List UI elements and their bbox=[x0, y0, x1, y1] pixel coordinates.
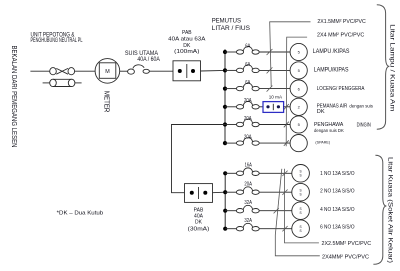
svg-text:dengan suis DK: dengan suis DK bbox=[314, 128, 344, 133]
wire service neutral in bbox=[43, 82, 50, 84]
node top row4 bbox=[223, 105, 227, 109]
tick row2 bbox=[267, 67, 273, 73]
brace bottom bbox=[373, 155, 386, 264]
wire cutout to meter bbox=[75, 70, 96, 72]
wire switch to PAB1 bbox=[149, 70, 173, 72]
svg-text:6A: 6A bbox=[245, 62, 251, 68]
svg-text:LAMPU/KIPAS: LAMPU/KIPAS bbox=[314, 66, 349, 73]
label suis-utama bbox=[125, 51, 160, 63]
callout 2x1.5mm bbox=[270, 22, 311, 86]
svg-text:6A: 6A bbox=[245, 43, 251, 49]
svg-text:PEMUTUS: PEMUTUS bbox=[212, 18, 241, 25]
neutral link N-PL bbox=[50, 79, 75, 86]
outlet circle row6 spare bbox=[290, 135, 307, 152]
outlet circle row1 bbox=[290, 43, 307, 60]
svg-text:6A: 6A bbox=[245, 80, 251, 86]
tick brow4 bbox=[282, 226, 287, 231]
svg-text:(SPARE): (SPARE) bbox=[315, 141, 330, 145]
label supply-left bbox=[10, 46, 17, 148]
svg-text:40A atau 63A: 40A atau 63A bbox=[168, 36, 205, 42]
node bottom row3 bbox=[223, 209, 227, 213]
outlet circle row5 bbox=[290, 116, 307, 133]
fuse 32A brow3 bbox=[225, 205, 292, 213]
svg-text:20A: 20A bbox=[244, 182, 252, 188]
svg-text:BEKALAN DARI PEMEGANG LESEN: BEKALAN DARI PEMEGANG LESEN bbox=[10, 46, 17, 148]
callout 2x4mm bottom bbox=[275, 169, 320, 256]
svg-text:LITAR / FIUS: LITAR / FIUS bbox=[212, 25, 250, 32]
fuse 32A brow4 bbox=[225, 223, 292, 231]
fuse 20A brow2 bbox=[225, 187, 292, 195]
svg-text:10 mA: 10 mA bbox=[269, 94, 283, 99]
svg-text:2X4 MM² PVC/PVC: 2X4 MM² PVC/PVC bbox=[317, 33, 364, 39]
svg-text:20A: 20A bbox=[244, 135, 252, 141]
label litar-kuasa bbox=[386, 157, 392, 263]
tick row4 bbox=[284, 104, 289, 110]
meter M1 bbox=[95, 59, 120, 84]
svg-text:2X4MM² PVC/PVC: 2X4MM² PVC/PVC bbox=[322, 254, 369, 260]
callout 2x4mm top bbox=[286, 37, 307, 146]
svg-text:40A / 60A: 40A / 60A bbox=[137, 57, 160, 63]
RCD 10mA blue bbox=[263, 102, 284, 113]
svg-text:4 NO 13A S/S/O: 4 NO 13A S/S/O bbox=[320, 207, 355, 213]
label PAB1 bbox=[168, 30, 205, 55]
switch S1 main switch bbox=[128, 65, 150, 74]
callout 2x2.5mm bbox=[285, 169, 319, 243]
tick brow2 bbox=[282, 190, 287, 195]
node top row2 bbox=[223, 68, 227, 72]
label penghawa row5 bbox=[314, 122, 371, 133]
tick row3 bbox=[267, 86, 273, 92]
outlet circle row4 bbox=[290, 98, 307, 115]
svg-text:DINGIN: DINGIN bbox=[357, 122, 371, 128]
svg-text:DK: DK bbox=[195, 220, 203, 226]
tick brow1 bbox=[282, 171, 287, 176]
fuse 6A row1 bbox=[225, 47, 290, 55]
fuse 20A row6 bbox=[225, 138, 290, 146]
svg-text:16A: 16A bbox=[245, 163, 253, 169]
svg-text:2 NO 13A S/S/O: 2 NO 13A S/S/O bbox=[320, 189, 355, 195]
svg-text:S: S bbox=[300, 193, 302, 197]
fuse 16A brow1 bbox=[225, 168, 292, 176]
svg-text:PAB: PAB bbox=[182, 30, 192, 36]
svg-text:6 NO 13A S/S/O: 6 NO 13A S/S/O bbox=[320, 225, 355, 231]
fuse 6A row2 bbox=[225, 65, 290, 73]
label pemanas row4 bbox=[317, 103, 374, 115]
wire service live in bbox=[30, 70, 49, 72]
fuse 20A row5 bbox=[225, 119, 290, 127]
node bottom row1 bbox=[223, 171, 227, 175]
wire RCD to outlet row4 bbox=[284, 106, 291, 108]
brace top bbox=[377, 5, 390, 129]
label litar-lampu bbox=[389, 24, 395, 111]
svg-text:2X1.5MM² PVC/PVC: 2X1.5MM² PVC/PVC bbox=[317, 19, 365, 25]
wire PAB1 to busbar bbox=[201, 69, 226, 72]
svg-text:dengan suis: dengan suis bbox=[349, 103, 373, 108]
wire meter to switch bbox=[120, 70, 128, 72]
wire feed to PAB2 bbox=[172, 125, 226, 193]
svg-text:S: S bbox=[300, 211, 302, 215]
busbar bottom bbox=[224, 173, 226, 228]
label unit-pepotong bbox=[31, 32, 83, 44]
outlet circle brow1 bbox=[292, 165, 310, 183]
node top row1 bbox=[223, 50, 227, 54]
svg-text:Litar Kuasa (Soket Alir Keluar: Litar Kuasa (Soket Alir Keluar) bbox=[386, 157, 392, 263]
tick row1 bbox=[267, 49, 273, 55]
svg-text:S: S bbox=[300, 229, 302, 233]
svg-text:(30mA): (30mA) bbox=[188, 226, 210, 232]
svg-text:LOCENG/ PENGGERA: LOCENG/ PENGGERA bbox=[317, 86, 365, 92]
outlet circle row3 bbox=[290, 80, 307, 97]
wire neutral stub bbox=[75, 82, 82, 84]
node top row5 bbox=[223, 122, 227, 126]
label PAB2 bbox=[188, 208, 210, 233]
outlet circle brow2 bbox=[292, 183, 310, 201]
fuse cutout F-PL bbox=[50, 68, 75, 75]
svg-text:Litar Lampu / Kuasa Am: Litar Lampu / Kuasa Am bbox=[389, 24, 395, 111]
outlet circle brow3 bbox=[292, 202, 310, 220]
svg-text:1 NO 13A S/S/O: 1 NO 13A S/S/O bbox=[320, 171, 355, 177]
svg-text:20A: 20A bbox=[244, 98, 252, 104]
wire PAB2 to busbar2 bbox=[213, 191, 226, 194]
label meter bbox=[102, 91, 109, 113]
svg-text:LAMPU /KIPAS: LAMPU /KIPAS bbox=[313, 48, 350, 55]
svg-text:METER: METER bbox=[102, 91, 109, 113]
svg-text:32A: 32A bbox=[244, 218, 252, 224]
svg-text:*DK – Dua Kutub: *DK – Dua Kutub bbox=[57, 211, 103, 217]
fuse 20A row4 bbox=[225, 101, 263, 109]
RCD PAB2 bbox=[185, 184, 213, 203]
fuse 6A row3 bbox=[225, 83, 290, 91]
svg-text:SUIS UTAMA: SUIS UTAMA bbox=[125, 51, 158, 57]
outlet circle brow4 bbox=[292, 220, 310, 238]
tick row6 bbox=[284, 140, 289, 146]
svg-text:PENGHUBUNG NEUTRAL PL: PENGHUBUNG NEUTRAL PL bbox=[31, 38, 83, 44]
tick brow3 bbox=[274, 208, 279, 213]
outlet circle row2 bbox=[290, 62, 307, 79]
node bottom row2 bbox=[223, 190, 227, 194]
svg-text:32A: 32A bbox=[244, 200, 252, 206]
node top row6 bbox=[223, 141, 227, 145]
svg-text:DK: DK bbox=[317, 109, 325, 115]
svg-text:20A: 20A bbox=[244, 116, 252, 122]
svg-text:M: M bbox=[105, 69, 110, 75]
RCD PAB1 bbox=[173, 61, 201, 81]
busbar top bbox=[224, 49, 226, 143]
label pemutus-litar bbox=[212, 18, 250, 32]
svg-text:(100mA): (100mA) bbox=[174, 49, 199, 55]
svg-text:S: S bbox=[300, 174, 302, 178]
node bottom row4 bbox=[223, 227, 227, 231]
svg-text:2X2.5MM² PVC/PVC: 2X2.5MM² PVC/PVC bbox=[322, 241, 372, 247]
node top row3 bbox=[223, 87, 227, 91]
tick row5 bbox=[284, 122, 289, 128]
